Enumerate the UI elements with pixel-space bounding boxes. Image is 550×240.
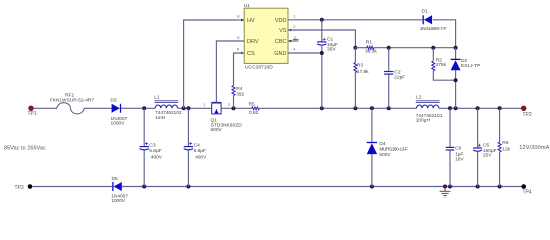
svg-text:R4: R4: [236, 86, 243, 92]
capacitor C4: [187, 108, 189, 146]
node R2 top junction: [431, 46, 435, 50]
node C4 bottom junction: [186, 185, 190, 189]
node C6 top junction: [448, 106, 452, 110]
node GND/C1 junction: [320, 51, 324, 55]
svg-text:12V/200mA: 12V/200mA: [519, 145, 549, 151]
svg-text:C3: C3: [149, 143, 156, 149]
node R2/D2 junction: [454, 78, 458, 82]
node C1 top junction: [320, 18, 324, 22]
op-amp U1 controller UCC28710D: [244, 8, 288, 63]
wire main rail TP1 to RF1: [31, 107, 57, 109]
svg-text:UCC28710D: UCC28710D: [245, 65, 273, 71]
resistor R6: [499, 108, 501, 142]
capacitor C1: [321, 20, 323, 42]
node D4 bottom junction: [370, 185, 374, 189]
svg-text:CBC: CBC: [275, 39, 287, 45]
svg-text:FKN1WSUR-52-4R7: FKN1WSUR-52-4R7: [50, 97, 95, 103]
wire TP3 to D5: [32, 186, 113, 188]
resistor R3: [354, 48, 356, 63]
wire DRV to Q1 gate: [216, 41, 244, 103]
svg-text:22pF: 22pF: [394, 74, 405, 80]
svg-text:100µH: 100µH: [416, 118, 431, 124]
wire D2 to rail: [455, 70, 457, 108]
inductor L1: [155, 105, 177, 108]
svg-text:TP1: TP1: [28, 111, 37, 117]
svg-text:R6: R6: [502, 140, 509, 146]
svg-text:R5: R5: [249, 102, 256, 108]
resistor R2: [432, 48, 434, 61]
svg-text:MURS160-13-F: MURS160-13-F: [379, 147, 408, 153]
node R6 bottom junction: [498, 185, 502, 189]
pin CBC pin 3 unconnected: [288, 40, 299, 42]
svg-text:C1: C1: [327, 37, 334, 43]
svg-text:TP3: TP3: [15, 185, 24, 191]
wire D3 to L1: [121, 107, 155, 109]
wire to R1: [355, 47, 367, 49]
svg-text:D4: D4: [379, 141, 386, 147]
node D1/D2 junction: [454, 46, 458, 50]
svg-text:25V: 25V: [483, 152, 492, 158]
inductor L2: [417, 105, 439, 108]
svg-text:L2: L2: [416, 95, 422, 101]
node ground junction: [443, 185, 447, 189]
node D2 bottom junction: [454, 106, 458, 110]
diode D4: [371, 108, 373, 142]
wire Q1 to R5: [221, 107, 252, 109]
test point TP4: [521, 184, 526, 189]
node R3 bottom junction: [353, 106, 357, 110]
node CS/R4 junction: [232, 106, 236, 110]
node VS divider junction: [353, 46, 357, 50]
node C3 top junction: [142, 106, 146, 110]
wire VDD line: [288, 19, 423, 21]
svg-text:38.3k: 38.3k: [365, 49, 377, 55]
wire R5 to switch node: [259, 107, 416, 109]
node HV feed junction: [182, 106, 186, 110]
wire R3 to rail: [354, 73, 356, 109]
svg-text:L1: L1: [154, 94, 160, 100]
wire R4 to rail: [233, 96, 235, 109]
resistor R4: [232, 86, 235, 96]
wire VS to divider: [288, 30, 355, 48]
svg-text:U1: U1: [244, 3, 251, 9]
node C4 top junction: [186, 106, 190, 110]
svg-text:VS: VS: [279, 28, 287, 34]
wire R2 bottom jog: [433, 71, 455, 80]
svg-text:TP2: TP2: [523, 112, 532, 118]
node C5 bottom junction: [476, 185, 480, 189]
wire L2 to TP2: [439, 107, 524, 109]
svg-text:ES1J-TP: ES1J-TP: [461, 63, 480, 69]
svg-text:TP4: TP4: [523, 189, 532, 195]
diode D3: [112, 104, 120, 113]
diode D5: [114, 182, 122, 191]
svg-text:CS: CS: [247, 51, 255, 57]
svg-text:6.8µF: 6.8µF: [194, 148, 206, 154]
svg-text:D5: D5: [112, 176, 119, 182]
svg-text:400V: 400V: [151, 155, 163, 161]
wire top node to R2/D2: [433, 47, 455, 49]
node C1/GND drop junction: [320, 106, 324, 110]
svg-text:HV: HV: [247, 18, 255, 24]
transistor Q1: [212, 103, 221, 114]
diode D1: [424, 15, 432, 24]
test point TP2: [521, 106, 526, 111]
svg-text:D3: D3: [110, 98, 117, 104]
node R6 top junction: [498, 106, 502, 110]
wire CS to R4: [234, 53, 245, 86]
svg-text:1N4148W-7-F: 1N4148W-7-F: [420, 26, 447, 32]
svg-text:VDD: VDD: [275, 18, 287, 24]
node C6 bottom junction: [448, 185, 452, 189]
svg-text:392: 392: [236, 92, 244, 98]
wire R1 to C2 node: [374, 47, 434, 49]
wire D1 to switch node drop: [433, 20, 456, 48]
svg-text:600V: 600V: [379, 152, 391, 158]
svg-text:R1: R1: [366, 40, 373, 46]
capacitor C2: [388, 48, 390, 72]
node C2 top junction: [387, 46, 391, 50]
test point TP1: [29, 106, 34, 111]
svg-text:GND: GND: [274, 51, 286, 57]
svg-text:0.82: 0.82: [249, 110, 259, 116]
svg-text:1mH: 1mH: [155, 115, 166, 121]
node D4 top junction: [370, 106, 374, 110]
wire RF1 to D3: [84, 107, 112, 109]
svg-text:475k: 475k: [436, 62, 447, 68]
svg-text:85Vac to 265Vac: 85Vac to 265Vac: [4, 146, 46, 152]
svg-text:16V: 16V: [455, 156, 464, 162]
svg-text:12k: 12k: [502, 147, 510, 153]
wire D5 to TP4: [122, 186, 524, 188]
svg-text:DRV: DRV: [247, 39, 259, 45]
fusible resistor RF1: [57, 103, 84, 114]
resistor R1: [367, 46, 374, 49]
capacitor C5: [477, 108, 479, 148]
node C2 bottom junction: [387, 106, 391, 110]
svg-text:R3: R3: [357, 62, 364, 68]
wire HV to rail: [184, 20, 237, 108]
svg-text:6.8µF: 6.8µF: [149, 148, 161, 154]
svg-text:17.8k: 17.8k: [357, 69, 369, 75]
svg-text:1µF: 1µF: [455, 151, 463, 157]
node C5 top junction: [476, 106, 480, 110]
diode D2: [455, 48, 457, 60]
node C3 bottom junction: [142, 185, 146, 189]
svg-text:C4: C4: [194, 143, 201, 149]
svg-text:1000V: 1000V: [111, 198, 126, 204]
pin HV pin 8: [237, 19, 245, 21]
svg-text:1000V: 1000V: [111, 121, 126, 127]
svg-text:C5: C5: [483, 142, 490, 148]
svg-text:35V: 35V: [327, 47, 336, 53]
wire GND pin to C1: [288, 52, 322, 54]
svg-text:600V: 600V: [211, 127, 223, 133]
svg-text:D1: D1: [422, 9, 429, 15]
resistor R5: [252, 107, 260, 110]
capacitor C6: [449, 108, 451, 147]
capacitor C3: [143, 108, 145, 146]
svg-text:C6: C6: [455, 146, 462, 152]
test point TP3: [28, 184, 33, 189]
svg-text:400V: 400V: [195, 155, 207, 161]
ground: [440, 187, 451, 198]
wire L1 to Q1: [178, 107, 212, 109]
